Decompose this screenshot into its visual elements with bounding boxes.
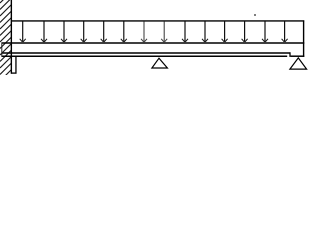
- load arrow 2: [41, 21, 47, 42]
- left column under beam: right side: [15, 57, 17, 74]
- beam top line: [2, 42, 305, 44]
- distributed load top line: [11, 20, 304, 22]
- beam bottom line right segment: [291, 55, 305, 57]
- load arrow 6: [121, 21, 127, 42]
- beam bottom line left segment: [2, 55, 288, 57]
- left column under beam: bottom cap: [11, 72, 17, 74]
- load arrow 3: [61, 21, 67, 42]
- beam left end cap inside wall: [1, 42, 3, 56]
- load arrow 12: [242, 21, 248, 42]
- middle pin support triangle: [152, 58, 168, 68]
- load arrow 10: [202, 21, 208, 42]
- beam mid-to-bottom step: [289, 52, 291, 57]
- fixed support wall hatching: [0, 0, 12, 88]
- load arrow 7: [141, 21, 147, 42]
- stray ink speck: [254, 14, 256, 16]
- fixed support wall edge: [10, 0, 12, 74]
- load arrow 11: [222, 21, 228, 42]
- load arrow 1: [20, 21, 26, 42]
- load arrow 9: [182, 21, 188, 42]
- load arrow 4: [81, 21, 87, 42]
- load arrow 14: [282, 21, 288, 42]
- right pin support triangle: [290, 58, 307, 69]
- load arrow 5: [101, 21, 107, 42]
- load arrow 13: [262, 21, 268, 42]
- load arrow 8: [161, 21, 167, 42]
- load right end / beam right edge vertical: [303, 20, 305, 57]
- beam mid line: [2, 52, 291, 54]
